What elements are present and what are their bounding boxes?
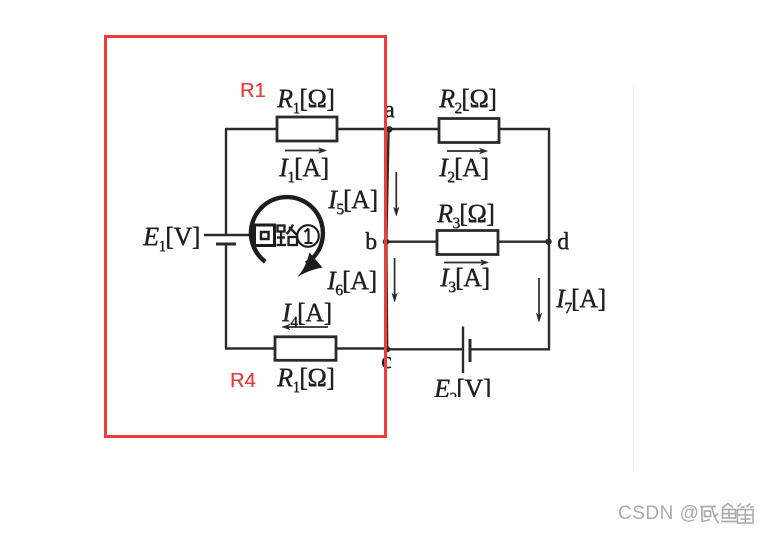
resistor R4 [275,337,336,361]
wire: E2 to bottom-right corner [470,348,550,350]
current arrow I3 (right) [444,260,489,266]
wire: node c to E2 [387,348,463,350]
value label R3[ohm] [437,201,494,227]
wire: bottom-left horizontal to R4 [225,347,276,349]
value label R1[ohm] top [277,86,334,112]
wire: R4 to node c [335,347,388,349]
watermark CSDN @ [618,503,699,525]
node c junction dot [384,346,390,352]
current label I4[A] [282,300,332,326]
node a junction dot [386,126,392,132]
wire: node b to R3 [387,240,438,242]
node label a [384,98,394,122]
red label R1 [240,81,266,101]
current label I2[A] [439,155,489,181]
resistor R1 [277,117,337,141]
loop label ① glyph [297,225,319,247]
loop marker circle (回路① arrow) [251,197,323,277]
loop label 回 glyph [255,225,275,246]
red label R4 [230,371,256,391]
current arrow I7 (down) [536,278,541,322]
battery E1 short plate [216,243,236,246]
current label I5[A] [328,187,378,213]
current label I1[A] [279,155,329,181]
current label I6[A] [327,268,377,294]
source label E2[V] (clipped at bottom) [434,376,491,397]
annotation highlight box (red) [104,35,387,438]
current label I3[A] [440,265,490,291]
node label b [365,230,377,254]
battery E2 long plate [462,327,464,374]
watermark CJK 咸 glyph [700,507,719,524]
watermark CJK 箘 glyph [738,504,754,524]
battery E2 short plate [469,339,472,362]
wire: top-left horizontal to R1 [225,128,278,130]
node label d [557,230,569,254]
resistor R2 [439,119,499,143]
node b junction dot [383,239,389,245]
current arrow I6 (down) [392,258,397,302]
wire: middle vertical a-b-c [386,129,388,349]
value label R1[ohm] bottom (R4) [277,365,334,391]
node label c [381,349,391,373]
resistor R3 [437,231,498,255]
current arrow I5 (down) [394,172,399,216]
current arrow I1 (right) [285,148,327,154]
source label E1[V] [143,224,200,250]
battery E1 long plate [204,234,249,236]
loop label 路 glyph [277,225,298,246]
wire: left vertical lower (E1 bottom lead) [225,244,227,349]
node d junction dot [545,239,551,245]
value label R2[ohm] [439,86,496,112]
current arrow I4 (left) [282,324,328,330]
scanned page right edge [633,85,634,470]
wire: R2 to top-right corner and right vertical down [498,129,549,350]
current label I7[A] [556,286,606,312]
watermark CJK 鱼 glyph [721,503,737,522]
current arrow I2 (right) [447,148,488,154]
wire: R3 to node d [497,240,549,242]
wire: left vertical upper (E1 top lead) [225,129,227,235]
wire: R1 to node a to R2 [336,128,440,130]
